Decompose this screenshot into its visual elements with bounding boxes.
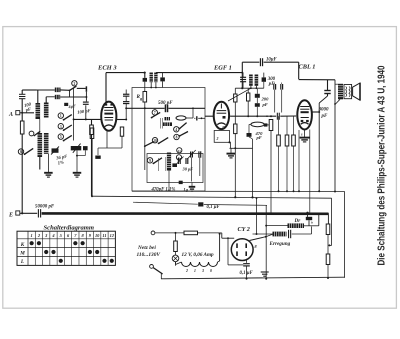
coil tap lower bbox=[163, 122, 172, 126]
trimmer IFT2 right bbox=[262, 73, 266, 89]
label 12V bbox=[182, 252, 215, 258]
label 200pF upper bbox=[267, 77, 276, 87]
capacitor grid coupling pair bbox=[123, 90, 129, 120]
svg-text:1: 1 bbox=[31, 233, 33, 238]
svg-text:6: 6 bbox=[20, 150, 22, 154]
capacitor blob B bbox=[172, 163, 177, 167]
ground CY2 on dropper line bbox=[261, 272, 269, 276]
resistor oval EGF bbox=[249, 122, 269, 128]
resistor ECH3 right bbox=[120, 127, 123, 148]
svg-text:Schalterdiagramm: Schalterdiagramm bbox=[44, 225, 95, 232]
coil L2 antenna bbox=[44, 97, 55, 118]
svg-text:A: A bbox=[8, 112, 13, 118]
wire CY2 anode feed bbox=[222, 233, 234, 265]
resistor Rg bbox=[137, 92, 147, 171]
resistor ECH3 left bbox=[90, 128, 94, 196]
capacitor cathode blob bbox=[95, 156, 100, 159]
svg-text:30 pF: 30 pF bbox=[182, 167, 194, 172]
svg-text:pF: pF bbox=[262, 102, 268, 107]
tube CBL1 bbox=[297, 100, 312, 136]
svg-text:CBL 1: CBL 1 bbox=[299, 63, 316, 70]
svg-text:2: 2 bbox=[74, 82, 76, 86]
switch contact 9 bbox=[147, 158, 162, 165]
svg-text:50000 pF: 50000 pF bbox=[35, 205, 55, 210]
capacitor 100pF antenna bbox=[19, 90, 37, 121]
capacitor 10uF bbox=[260, 57, 277, 66]
svg-text:3: 3 bbox=[201, 269, 204, 273]
switch contact 10 bbox=[152, 138, 168, 145]
oscillator inner box bbox=[147, 154, 203, 183]
label vert small B bbox=[159, 157, 166, 171]
terminal E bbox=[8, 211, 37, 219]
capacitor IFT2 left bbox=[240, 73, 246, 89]
oscillator section box bbox=[132, 88, 205, 192]
svg-text:2: 2 bbox=[216, 137, 219, 141]
field coil Erregung bbox=[253, 232, 291, 248]
switch contact extra bbox=[144, 142, 154, 148]
capacitor 500pF bbox=[158, 101, 173, 112]
svg-text:pF: pF bbox=[256, 135, 262, 140]
capacitor 200pF blobs bbox=[255, 89, 269, 117]
trimmer sub box bbox=[175, 157, 183, 166]
resistor EGF screen bbox=[269, 120, 273, 214]
switch contact 7 bbox=[151, 108, 160, 118]
resistor CBL grid 3 bbox=[292, 116, 296, 191]
wire bus L2 bbox=[92, 196, 332, 246]
svg-text:b: b bbox=[311, 221, 313, 225]
lamp pilot bbox=[172, 255, 179, 266]
wire CY2 cathode out bbox=[250, 234, 273, 240]
wire L2 drop bbox=[256, 197, 258, 234]
svg-text:Erregung: Erregung bbox=[269, 241, 291, 247]
svg-text:7: 7 bbox=[154, 111, 156, 115]
speaker bbox=[344, 83, 360, 100]
capacitor 470pF bbox=[247, 128, 264, 198]
resistor mains series bbox=[175, 231, 222, 235]
coil L1 antenna bbox=[36, 90, 41, 119]
trimmer 4pF bbox=[64, 103, 76, 110]
svg-text:8: 8 bbox=[176, 136, 178, 140]
coil tap upper bbox=[165, 117, 171, 120]
switch contact 4 bbox=[174, 123, 187, 132]
tube EGF1 bbox=[214, 88, 251, 141]
resistor EGF divider lower bbox=[234, 124, 237, 197]
capacitor 50000pF bbox=[35, 205, 55, 218]
capacitor padder 2 bbox=[77, 146, 88, 156]
junction dots buses bbox=[91, 190, 336, 198]
svg-text:Netz bei: Netz bei bbox=[137, 245, 156, 251]
svg-text:0,1 µF: 0,1 µF bbox=[240, 271, 254, 276]
wire ECH3 top bbox=[106, 72, 146, 74]
resistor CBL grid 1 bbox=[277, 116, 281, 191]
resistor smoothing 1 bbox=[326, 213, 330, 254]
svg-text:5: 5 bbox=[60, 135, 62, 139]
svg-text:0: 0 bbox=[210, 269, 212, 273]
wire CBL anode bbox=[312, 103, 320, 191]
trimmer padder bbox=[71, 144, 82, 173]
wire bus L1 bbox=[132, 191, 345, 278]
resistor dropper bbox=[174, 233, 178, 255]
ground EGF cathode bbox=[227, 148, 236, 158]
wire CY2 heater pins bbox=[228, 259, 247, 265]
choke Dr bbox=[265, 213, 319, 228]
coil oscillator feedback bbox=[167, 153, 171, 192]
label Netz bbox=[137, 245, 161, 258]
IF transformer 2 bbox=[235, 75, 263, 90]
svg-text:200: 200 bbox=[261, 97, 270, 102]
label vert small A bbox=[161, 118, 163, 129]
svg-text:M: M bbox=[19, 251, 25, 257]
label 100pF grid bbox=[77, 108, 91, 115]
wire ECH3 cathode bbox=[98, 131, 122, 155]
capacitor 3000pF bbox=[318, 80, 331, 119]
circled 11 bbox=[177, 148, 182, 153]
terminal mains top bbox=[151, 231, 184, 235]
svg-text:11: 11 bbox=[178, 149, 181, 153]
wire AVC line bbox=[230, 147, 253, 149]
wire L3 drop bbox=[265, 205, 267, 279]
svg-text:L: L bbox=[20, 259, 24, 265]
coil L3 wave band bbox=[55, 88, 70, 93]
svg-text:500 pF: 500 pF bbox=[158, 101, 173, 106]
resistor EGF mid bbox=[247, 88, 250, 117]
svg-text:4: 4 bbox=[175, 128, 177, 132]
ground Lg bbox=[183, 183, 196, 193]
label CBL1 bbox=[299, 63, 316, 70]
capacitor 0.1uF bus bbox=[198, 202, 220, 210]
wire bottom rail bbox=[161, 277, 345, 279]
svg-text:12 V, 0,06 Amp: 12 V, 0,06 Amp bbox=[182, 252, 215, 258]
svg-text:CY 2: CY 2 bbox=[238, 226, 250, 233]
label Schalterdiagramm bbox=[44, 225, 95, 232]
svg-text:K: K bbox=[20, 242, 25, 248]
svg-text:EGF 1: EGF 1 bbox=[213, 64, 232, 71]
ground padder bbox=[73, 173, 82, 177]
tube CY2 bbox=[231, 239, 257, 261]
svg-text:1: 1 bbox=[60, 114, 62, 118]
svg-text:3: 3 bbox=[60, 125, 62, 129]
resistor antenna series bbox=[20, 121, 24, 213]
svg-text:a: a bbox=[223, 124, 225, 129]
capacitor field bbox=[289, 227, 312, 239]
wire bus L3 decoupling bbox=[133, 202, 267, 205]
resistor CBL grid 2 bbox=[285, 116, 289, 191]
svg-text:Die Schaltung des Philips-Supe: Die Schaltung des Philips-Super-Junior A… bbox=[375, 65, 387, 265]
svg-text:pF: pF bbox=[321, 114, 329, 119]
capacitor bus end decoupling bbox=[306, 212, 314, 226]
wire CBL top bbox=[299, 79, 335, 81]
label ECH3 bbox=[97, 64, 117, 71]
svg-text:2: 2 bbox=[185, 269, 188, 273]
IF transformer 1 bbox=[150, 73, 243, 89]
switch bus vertical bbox=[73, 88, 75, 140]
resistor smoothing 2 bbox=[326, 254, 330, 279]
transformer output bbox=[334, 80, 343, 192]
wire EGF anode bbox=[205, 115, 296, 117]
label EGF1 bbox=[213, 64, 232, 71]
capacitor IFT1 left bbox=[143, 72, 147, 92]
terminal A bbox=[8, 111, 34, 118]
heater winding bbox=[176, 233, 221, 273]
svg-text:g: g bbox=[139, 96, 142, 101]
capacitor pair AVC bbox=[274, 83, 283, 113]
svg-text:0,1 µF: 0,1 µF bbox=[207, 205, 221, 210]
switch contact 1 bbox=[58, 113, 72, 121]
capacitor 0.1uF CY2 bbox=[240, 264, 254, 280]
wire ECH3 anode bbox=[116, 107, 205, 120]
switch mains bbox=[153, 268, 162, 279]
resistor EGF screen upper bbox=[234, 88, 237, 124]
label 470pF 1.1% bbox=[151, 187, 176, 192]
switch contact 3 bbox=[58, 124, 72, 132]
trimmer osc C bbox=[187, 150, 195, 182]
wire EGF cathode loop bbox=[214, 131, 230, 149]
svg-text:ECH 3: ECH 3 bbox=[97, 64, 117, 71]
switch contact osc tap bbox=[29, 131, 40, 136]
svg-text:11: 11 bbox=[102, 233, 106, 238]
ground CBL cathode bbox=[300, 130, 310, 213]
switch contact 8 bbox=[174, 132, 188, 140]
terminal mains bottom bbox=[150, 265, 154, 269]
coil L6 oscillator bbox=[44, 133, 49, 154]
svg-text:s: s bbox=[300, 132, 303, 137]
switch contact 2 bbox=[69, 81, 86, 97]
junction blob inner box bbox=[179, 181, 183, 184]
tube ECH3 bbox=[101, 73, 116, 131]
trimmer 36pF bbox=[51, 147, 68, 166]
circled Cg bbox=[176, 155, 181, 160]
wire antenna top bbox=[37, 89, 55, 91]
coil L7 oscillator bbox=[47, 154, 49, 173]
switch contact 6 bbox=[18, 148, 33, 155]
svg-text:110...130V: 110...130V bbox=[137, 252, 161, 258]
coil L4 wave band bbox=[55, 95, 87, 99]
ground oscillator coil bbox=[44, 173, 53, 177]
svg-text:1: 1 bbox=[194, 269, 196, 273]
resistor oval A bbox=[176, 107, 205, 120]
switch table bbox=[17, 231, 115, 265]
trimmer IFT1 right bbox=[160, 73, 165, 88]
wire bus main thick bbox=[42, 213, 329, 215]
caption Die Schaltung des Philips-Super-Junior A 43 U, 1940 bbox=[375, 65, 387, 265]
svg-text:9: 9 bbox=[149, 159, 151, 163]
capacitor sub box bbox=[186, 158, 188, 164]
wire grid ECH3 bbox=[73, 118, 102, 120]
capacitor osc D bbox=[199, 151, 201, 176]
resistor grid leak bbox=[90, 119, 94, 196]
svg-text:E: E bbox=[8, 213, 13, 219]
switch contact 5 bbox=[58, 134, 72, 142]
svg-text:Dr: Dr bbox=[294, 218, 302, 224]
label 30pF bbox=[182, 167, 194, 172]
wire 10uF top bbox=[241, 62, 298, 88]
capacitor coupling CBL bbox=[277, 113, 279, 120]
capacitor 100pF to grid bbox=[83, 102, 89, 120]
capacitor antenna blocked end bbox=[85, 86, 87, 101]
svg-text:10µF: 10µF bbox=[266, 57, 278, 62]
wire CBL aux vertical bbox=[298, 130, 300, 191]
label CY2 bbox=[238, 226, 250, 233]
coil L5 oscillator bbox=[38, 119, 43, 170]
